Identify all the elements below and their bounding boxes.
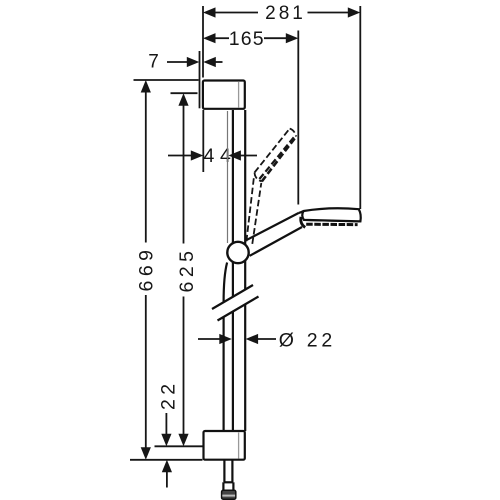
svg-text:625: 625 [176,246,198,292]
svg-text:165: 165 [229,28,265,50]
svg-text:44: 44 [204,145,237,167]
svg-text:7: 7 [148,51,159,72]
svg-text:22: 22 [158,379,180,410]
svg-text:669: 669 [136,245,158,291]
svg-text:Ø 22: Ø 22 [279,329,336,351]
svg-text:281: 281 [265,3,306,24]
